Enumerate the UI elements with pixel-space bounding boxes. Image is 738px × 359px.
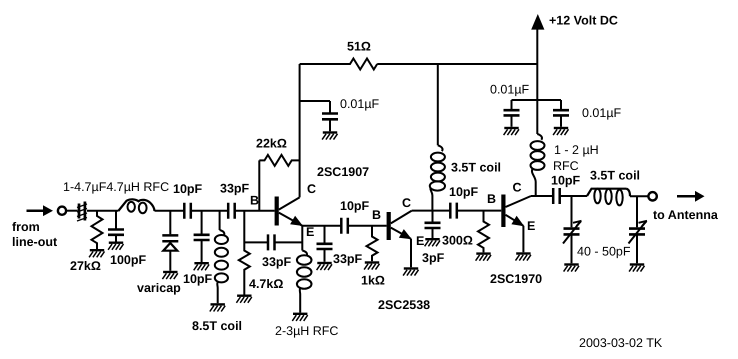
capacitor 33pF feedback xyxy=(244,234,302,250)
svg-text:B: B xyxy=(487,192,496,206)
svg-text:0.01µF: 0.01µF xyxy=(582,106,622,120)
resistor 300 ohm xyxy=(478,211,489,253)
ground varicap xyxy=(162,272,177,279)
svg-text:C: C xyxy=(402,196,411,210)
wire xyxy=(191,210,228,212)
svg-text:33pF: 33pF xyxy=(333,252,363,266)
wire Q2 collector xyxy=(412,210,451,212)
trimmer capacitor 40-50pF left xyxy=(563,196,582,263)
capacitor 0.01uF Q1 xyxy=(300,101,338,131)
svg-text:3.5T coil: 3.5T coil xyxy=(590,169,640,183)
svg-text:B: B xyxy=(372,208,381,222)
svg-text:40 - 50pF: 40 - 50pF xyxy=(577,245,631,259)
capacitor 0.01uF right xyxy=(553,100,569,127)
ground trimmer right xyxy=(629,265,644,272)
trimmer capacitor 40-50pF right xyxy=(629,196,648,263)
svg-text:E: E xyxy=(416,234,424,248)
svg-text:varicap: varicap xyxy=(137,281,181,295)
ground 0.01uF left xyxy=(504,128,519,135)
svg-text:1 - 2 µH: 1 - 2 µH xyxy=(554,143,599,157)
wire Q3 collector xyxy=(531,195,553,197)
resistor 27k xyxy=(92,211,103,249)
capacitor 10pF output xyxy=(553,188,560,204)
ground 27k xyxy=(89,250,104,257)
varicap diode xyxy=(162,211,178,271)
svg-text:+12 Volt DC: +12 Volt DC xyxy=(549,14,618,28)
inductor 1-2uH RFC xyxy=(531,100,545,196)
svg-text:10pF: 10pF xyxy=(183,272,213,286)
capacitor 10pF shunt xyxy=(194,211,210,262)
svg-text:C: C xyxy=(513,181,522,195)
transistor Q2 2SC2538 xyxy=(387,211,412,268)
wire rail right xyxy=(377,63,537,65)
capacitor 10pF series input xyxy=(184,203,191,219)
wire xyxy=(630,195,648,197)
svg-text:B: B xyxy=(250,194,259,208)
wire xyxy=(560,195,587,197)
svg-text:C: C xyxy=(307,182,316,196)
svg-text:0.01µF: 0.01µF xyxy=(490,83,530,97)
emitter node vertical Q1 xyxy=(301,226,303,251)
label from line-out xyxy=(12,220,58,249)
capacitor 10pF interstage2 xyxy=(450,203,457,219)
svg-text:33pF: 33pF xyxy=(262,255,292,269)
svg-text:E: E xyxy=(527,219,535,233)
svg-text:100pF: 100pF xyxy=(110,253,146,267)
svg-text:3.5T coil: 3.5T coil xyxy=(451,161,501,175)
svg-text:from: from xyxy=(12,220,40,234)
resistor 22k xyxy=(259,155,299,211)
svg-text:0.01µF: 0.01µF xyxy=(340,97,380,111)
svg-text:2SC1907: 2SC1907 xyxy=(317,165,369,179)
resistor 1k xyxy=(367,226,378,262)
capacitor 10pF interstage1 xyxy=(341,218,348,234)
capacitor 100pF xyxy=(108,211,124,242)
ground Q3 emitter xyxy=(516,254,531,261)
svg-text:2003-03-02 TK: 2003-03-02 TK xyxy=(579,336,663,350)
wire xyxy=(348,225,387,227)
inductor 8.5T coil xyxy=(215,211,228,304)
ground 2-3uH RFC xyxy=(292,314,307,321)
svg-text:to Antenna: to Antenna xyxy=(653,208,719,222)
svg-text:2SC2538: 2SC2538 xyxy=(378,298,430,312)
svg-text:RFC: RFC xyxy=(553,159,579,173)
ground 3pF xyxy=(425,239,440,246)
+12V supply arrow xyxy=(531,14,544,100)
wire +12V rail xyxy=(300,63,348,65)
svg-text:300Ω: 300Ω xyxy=(442,234,473,248)
transistor Q3 2SC1970 xyxy=(501,195,531,253)
svg-text:2SC1970: 2SC1970 xyxy=(490,272,542,286)
svg-text:1kΩ: 1kΩ xyxy=(361,274,385,288)
ground 8.5T coil xyxy=(210,304,225,311)
capacitor 33pF series xyxy=(228,203,235,219)
svg-text:E: E xyxy=(306,225,314,239)
ground 300 ohm xyxy=(476,254,491,261)
wire xyxy=(235,210,275,212)
wire xyxy=(66,210,77,212)
ground 4.7k xyxy=(236,296,251,303)
ground 0.01uF Q1 xyxy=(322,133,337,140)
svg-text:4.7kΩ: 4.7kΩ xyxy=(249,277,283,291)
wire bypass stub xyxy=(512,99,562,101)
input terminal xyxy=(58,207,66,215)
capacitor 3pF xyxy=(425,211,441,238)
ground 1k xyxy=(364,263,379,270)
svg-text:line-out: line-out xyxy=(12,235,58,249)
resistor 4.7k xyxy=(239,211,250,295)
inductor 4.7uH RFC xyxy=(118,199,154,213)
ground 10pF shunt xyxy=(194,263,209,270)
inductor 3.5T coil Q2 xyxy=(430,64,445,211)
wire xyxy=(457,210,502,212)
svg-text:8.5T coil: 8.5T coil xyxy=(192,319,242,333)
ground trimmer left xyxy=(564,265,579,272)
svg-text:2-3µH RFC: 2-3µH RFC xyxy=(275,324,338,338)
svg-text:10pF: 10pF xyxy=(551,174,581,188)
svg-text:27kΩ: 27kΩ xyxy=(70,259,101,273)
svg-text:51Ω: 51Ω xyxy=(347,40,371,54)
input arrow xyxy=(27,205,54,216)
ground 0.01uF right xyxy=(553,128,568,135)
svg-text:33pF: 33pF xyxy=(220,182,250,196)
wire emitter line xyxy=(302,225,341,227)
capacitor 0.01uF left xyxy=(504,100,520,127)
resistor 51 ohm xyxy=(348,59,377,70)
output arrow xyxy=(677,191,705,202)
ground 33pF shunt xyxy=(317,263,332,270)
inductor 2-3uH RFC xyxy=(297,251,312,313)
svg-text:10pF: 10pF xyxy=(173,182,203,196)
svg-text:22kΩ: 22kΩ xyxy=(256,137,287,151)
svg-text:10pF: 10pF xyxy=(449,185,479,199)
wire xyxy=(155,210,185,212)
svg-text:3pF: 3pF xyxy=(422,251,445,265)
trimmer capacitor 1-4.7uF xyxy=(77,202,87,222)
wire Q1 collector riser xyxy=(299,64,301,197)
svg-text:10pF: 10pF xyxy=(340,199,370,213)
output terminal xyxy=(648,192,656,200)
svg-text:1-4.7µF4.7µH RFC: 1-4.7µF4.7µH RFC xyxy=(63,180,169,194)
wire xyxy=(87,210,118,212)
ground Q2 emitter xyxy=(403,269,418,276)
transistor Q1 2SC1907 xyxy=(275,197,303,227)
ground 100pF xyxy=(108,243,123,250)
capacitor 33pF shunt emitter xyxy=(317,226,333,262)
inductor 3.5T coil output xyxy=(587,189,630,206)
